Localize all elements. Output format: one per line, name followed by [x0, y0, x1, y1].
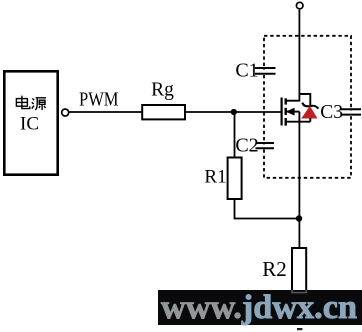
svg-text:R1: R1 — [204, 167, 226, 188]
body diode lower wire — [309, 118, 311, 122]
svg-text:PWM: PWM — [79, 90, 119, 111]
MOSFET Q1 body to source vertical — [298, 112, 300, 122]
body diode triangle (red) — [302, 107, 316, 118]
svg-text:Rg: Rg — [151, 80, 174, 101]
dashed box parasitic capacitances — [264, 36, 351, 178]
capacitor C3 (drain-source) — [341, 109, 361, 114]
R2 bottom terminal dash — [297, 328, 302, 330]
body diode branch wire — [299, 94, 310, 105]
MOSFET Q1 drain connection — [286, 100, 300, 102]
MOSFET Q1 gate bar — [281, 98, 283, 126]
power supply IC box — [4, 71, 57, 174]
drain terminal circle — [296, 2, 303, 9]
node gate junction — [231, 109, 237, 115]
body diode cathode curve — [302, 103, 318, 109]
wire PWM from terminal to Rg — [69, 111, 142, 113]
label 源 (of 源) — [32, 98, 46, 110]
wire drain from terminal down — [298, 10, 300, 102]
wire source down to R2 — [298, 122, 300, 248]
node source junction — [296, 215, 302, 221]
MOSFET Q1 body arrow — [286, 108, 300, 116]
wire gate node down to R1 — [234, 112, 236, 158]
resistor R2 outline faintly visible inside band — [291, 290, 307, 293]
wire gate node to MOSFET gate — [234, 111, 281, 113]
svg-text:C1: C1 — [235, 60, 258, 82]
label 电 (of 电源) — [16, 96, 29, 109]
PWM output terminal circle — [62, 109, 69, 116]
svg-text:C2: C2 — [235, 135, 258, 157]
capacitor C2 (gate-source) — [256, 143, 275, 148]
wire Rg to gate node — [185, 111, 234, 113]
capacitor C1 (gate-drain) — [255, 68, 276, 74]
svg-text:IC: IC — [20, 114, 39, 135]
MOSFET Q1 source connection — [286, 121, 311, 123]
watermark band www.jdwx.cn — [158, 289, 362, 326]
resistor Rg — [142, 105, 185, 119]
resistor R1 — [228, 158, 242, 200]
svg-text:R2: R2 — [262, 257, 287, 281]
svg-text:C3: C3 — [320, 102, 343, 123]
MOSFET Q1 channel segments — [285, 98, 287, 125]
svg-text:www.jdwx.cn: www.jdwx.cn — [161, 289, 357, 326]
wire R1 bottom to source node — [235, 199, 300, 219]
resistor R2 — [292, 248, 306, 292]
